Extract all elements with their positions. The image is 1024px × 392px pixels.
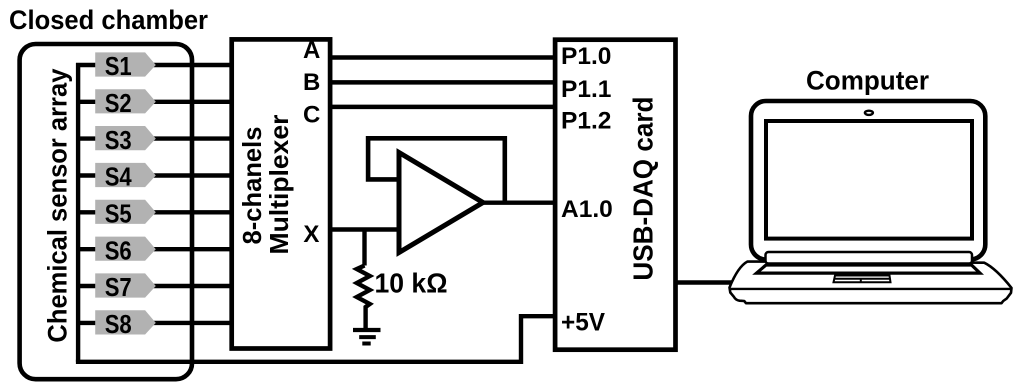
trackpad (834, 276, 891, 283)
sensor S1 (95, 52, 156, 76)
svg-text:USB-DAQ card: USB-DAQ card (628, 97, 659, 281)
sensor S8 (95, 310, 156, 334)
+5V bottom wire from bus to DAQ (76, 316, 554, 362)
sensor S5 (95, 200, 156, 224)
ground (353, 328, 381, 332)
wire USB cable to computer (676, 280, 735, 285)
svg-text:P1.1: P1.1 (561, 76, 611, 103)
hinge bar (766, 252, 973, 264)
op-amp feedback wire (368, 138, 505, 202)
camera (865, 111, 873, 115)
sensor S2 (95, 89, 156, 113)
resistor R1 zigzag (357, 266, 370, 330)
svg-text:S1: S1 (105, 53, 132, 81)
svg-text:Chemical sensor array: Chemical sensor array (42, 68, 72, 342)
svg-text:8-chanels: 8-chanels (237, 127, 267, 245)
wire S5 (78, 210, 232, 214)
closed chamber box (20, 44, 192, 379)
svg-text:X: X (303, 221, 319, 248)
svg-text:S8: S8 (105, 311, 132, 339)
wire S2 (78, 100, 232, 104)
svg-text:Multiplexer: Multiplexer (264, 115, 294, 255)
sensor S4 (95, 163, 156, 187)
svg-text:S3: S3 (105, 127, 132, 155)
svg-text:S4: S4 (105, 164, 133, 192)
svg-text:S2: S2 (105, 90, 132, 118)
svg-text:A: A (303, 37, 320, 64)
wire B to P1.1 (330, 80, 555, 85)
svg-text:Computer: Computer (806, 66, 929, 96)
computer base front edge (731, 288, 1011, 290)
wire X to op-amp input (330, 227, 399, 232)
svg-text:S7: S7 (105, 274, 132, 302)
wire X to resistor (362, 230, 366, 266)
wire S8 (78, 321, 232, 325)
svg-text:10 kΩ: 10 kΩ (375, 268, 448, 299)
svg-text:Closed chamber: Closed chamber (9, 5, 208, 35)
svg-text:S6: S6 (105, 237, 132, 265)
op-amp U2 (399, 153, 483, 253)
computer base body (730, 262, 1012, 304)
svg-text:C: C (303, 101, 320, 128)
svg-text:+5V: +5V (561, 308, 605, 336)
multiplexer U1 box (232, 39, 330, 348)
svg-text:P1.0: P1.0 (561, 43, 611, 70)
wire op-amp output to A1.0 (483, 200, 555, 204)
wire S4 (78, 173, 232, 177)
svg-text:A1.0: A1.0 (561, 196, 613, 223)
sensor S6 (95, 237, 156, 261)
wire S3 (78, 136, 232, 140)
wire C to P1.2 (330, 105, 555, 110)
svg-text:S5: S5 (105, 201, 132, 229)
screen (766, 121, 972, 239)
svg-text:P1.2: P1.2 (561, 108, 611, 135)
sensor S7 (95, 273, 156, 297)
wire S6 (78, 247, 232, 251)
sensor bus vertical wire (76, 63, 80, 362)
sensor S3 (95, 126, 156, 150)
USB-DAQ card box (555, 40, 675, 350)
svg-text:B: B (303, 69, 320, 96)
wire A to P1.0 (330, 55, 555, 60)
wire S7 (78, 284, 232, 288)
wire S1 (76, 63, 232, 67)
computer lid (751, 101, 985, 260)
keyboard deck (757, 265, 981, 273)
